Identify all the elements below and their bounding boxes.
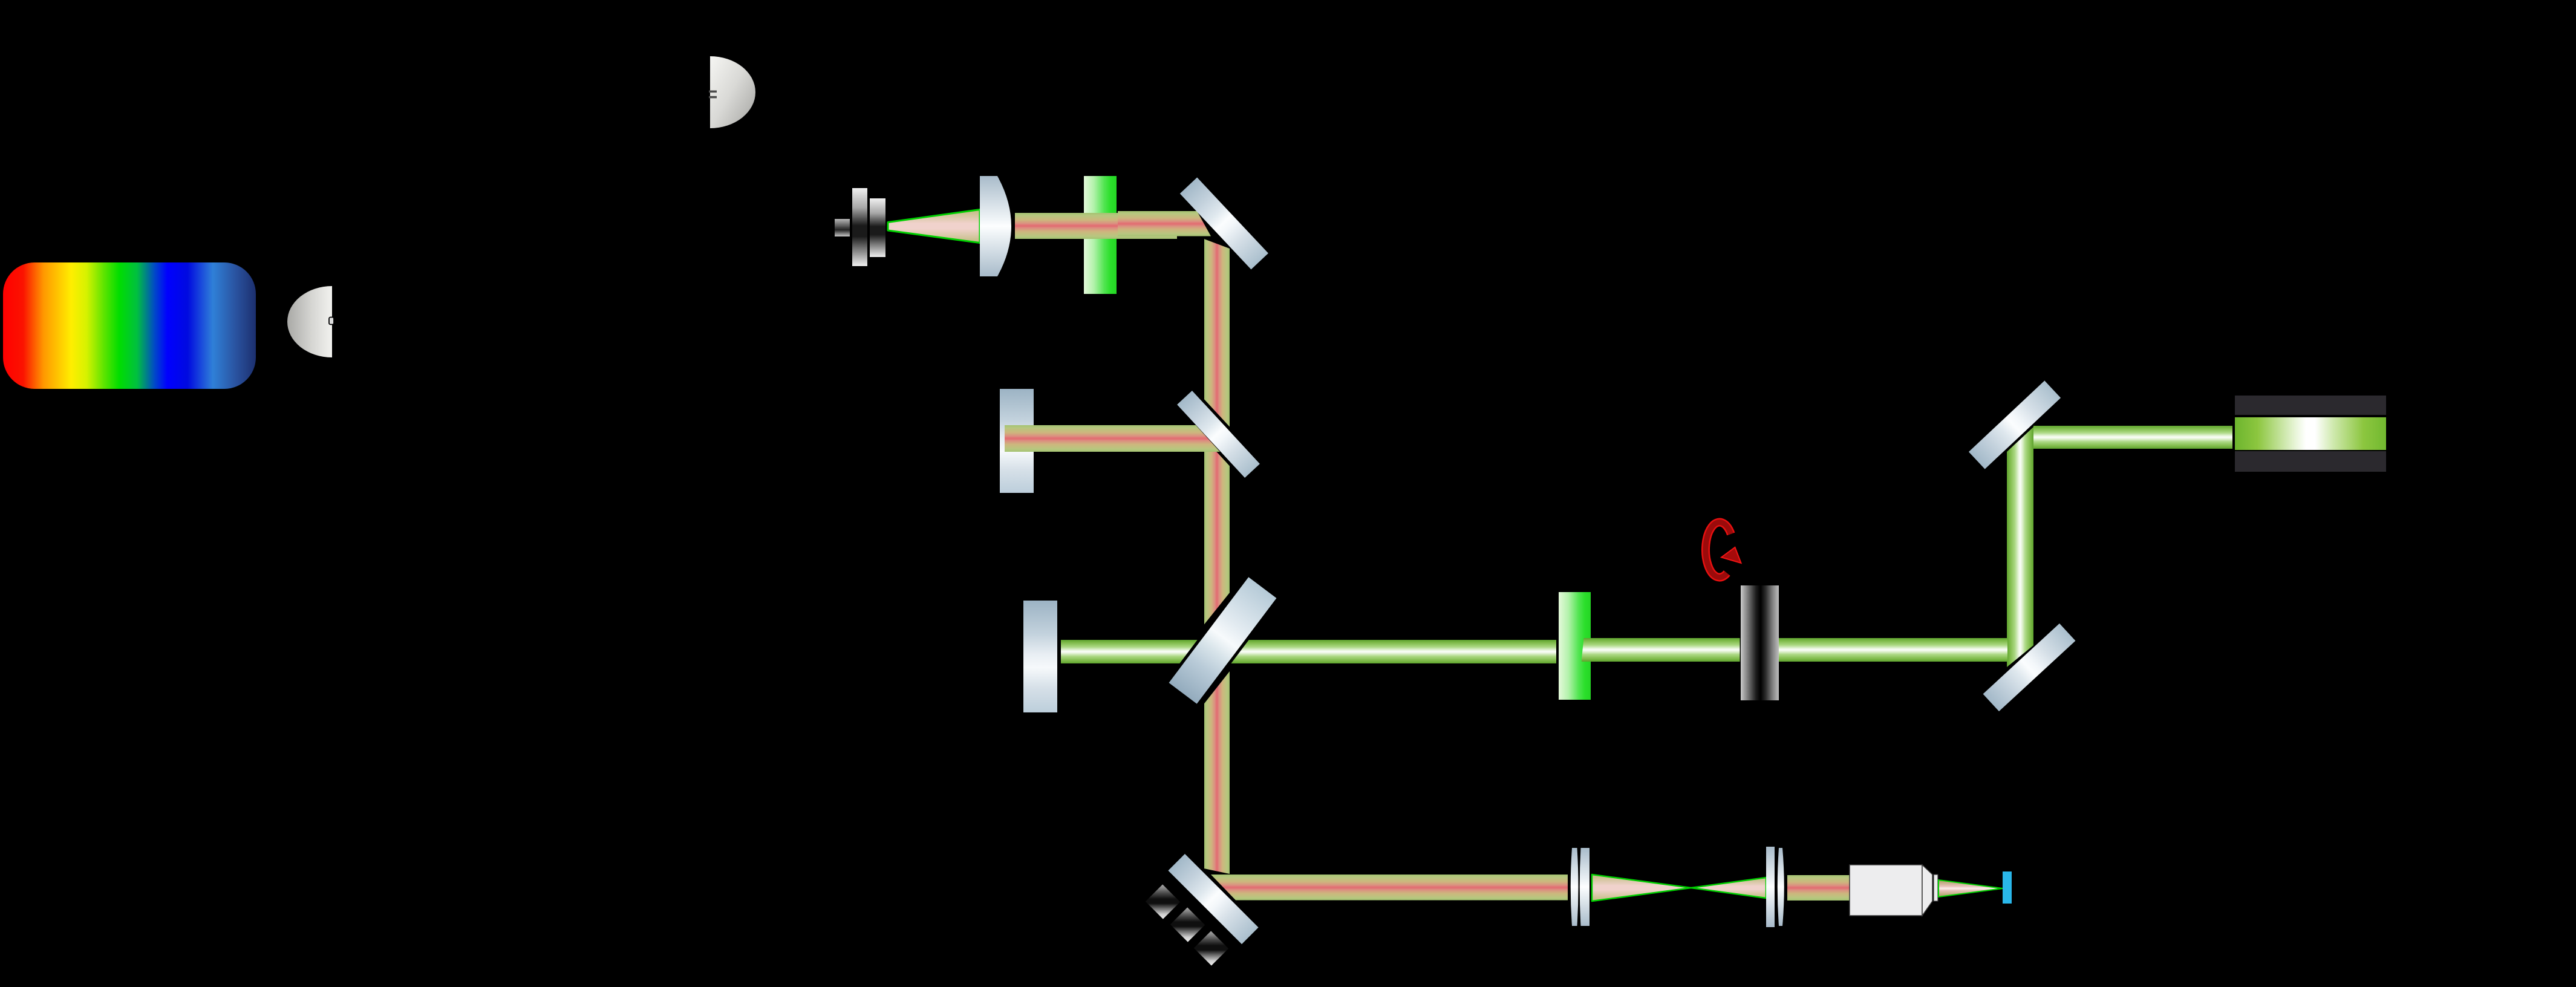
cone pinhole to collimating lens — [880, 200, 1019, 254]
green filter (top detection path) — [1084, 176, 1117, 294]
spectrometer (rainbow box) — [3, 262, 256, 389]
mirror end-slab upper-left arm — [1000, 389, 1034, 493]
sample (cyan) — [2003, 871, 2012, 904]
waveplate (rotating) — [1741, 585, 1779, 700]
pinhole plate tall — [852, 188, 867, 266]
wire: laser output beam (laser to M5) — [2033, 426, 2232, 449]
microscope objective — [1845, 859, 1948, 925]
piezo actuator bar 3 — [1193, 931, 1228, 965]
wire: vertical combined beam segment BS2 to BS3 — [1204, 452, 1230, 625]
mirror end-slab middle-left green arm — [1023, 601, 1057, 712]
wire: vertical combined beam segment M1 to BS2 — [1204, 239, 1230, 435]
beamsplitter BS3 dichroic — [1164, 573, 1280, 708]
telescope lens1 doublet — [1564, 841, 1600, 934]
collimating lens — [974, 169, 1028, 284]
piezo mirror — [1168, 853, 1258, 943]
wire: middle green beam segment A (end-slab through BS3 to filter) — [1061, 640, 1556, 663]
detector D1 (half-disc near spectrometer) — [278, 278, 345, 369]
wire: top combined beam segment B (filter to mirror M1) — [1118, 211, 1211, 236]
rotation arrow (red) — [1694, 511, 1754, 590]
wire: middle green beam segment B (over filter to waveplate) — [1582, 638, 1740, 662]
mirror M1 (top, sends fluorescence to detector path) — [1180, 177, 1268, 269]
wire: middle green beam segment C (waveplate to M4) — [1779, 638, 2007, 662]
mirror M4 (lower right, laser steering) — [1983, 624, 2075, 711]
wire: bottom combined beam (piezo mirror to lens1) — [1211, 875, 1568, 901]
telescope cone (lens1 to focus to lens2) — [1585, 865, 1772, 913]
pinhole bar — [835, 219, 850, 236]
green filter (middle laser path) — [1559, 592, 1591, 700]
wire: vertical green beam (M5 down to M4) — [2007, 426, 2033, 668]
beamsplitter BS2 (middle arm) — [1172, 386, 1264, 482]
piezo actuator bar 2 — [1170, 907, 1204, 942]
laser box — [2235, 396, 2386, 472]
wire: vertical combined beam segment BS3 to piezo mirror — [1204, 671, 1230, 874]
detector D2 (half-disc, top left) — [696, 48, 768, 139]
telescope lens2 doublet — [1760, 841, 1793, 934]
pinhole plate short — [870, 198, 885, 257]
objective focus cone — [1932, 871, 2011, 907]
wire: middle combined beam (end-slab to BS2, drawn over BS2) — [1005, 425, 1220, 452]
wire: top combined beam segment A (lens over filter) — [1015, 213, 1177, 239]
wire: beam lens2 to objective — [1787, 875, 1851, 901]
piezo actuator bar 1 — [1145, 884, 1179, 919]
mirror M5 (top right, laser steering) — [1969, 380, 2061, 469]
